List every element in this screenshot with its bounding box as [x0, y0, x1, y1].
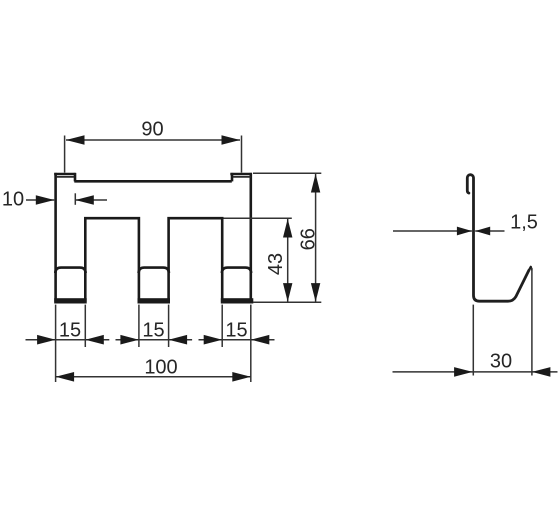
dimension 10: [2, 189, 107, 211]
right tab top: [230, 173, 252, 176]
svg-text:10: 10: [2, 189, 24, 211]
left tab top: [54, 173, 75, 176]
right tab left side: [231, 173, 234, 182]
svg-text:15: 15: [225, 319, 247, 341]
front view body outline: [54, 173, 252, 302]
svg-text:100: 100: [144, 357, 177, 379]
body left edge: [54, 173, 57, 302]
prong 1 fold line: [55, 268, 85, 273]
svg-text:43: 43: [265, 253, 287, 275]
prong 3 fold line: [222, 268, 251, 273]
right tab fold line: [233, 176, 251, 178]
opening 1: [85, 218, 139, 302]
body right edge: [250, 173, 253, 302]
svg-text:1,5: 1,5: [510, 211, 538, 233]
dimension 15 prong1: [26, 305, 110, 382]
svg-text:15: 15: [142, 319, 164, 341]
dimension 15 prong2: [116, 305, 193, 347]
top curl: [467, 175, 529, 302]
prong 3 bottom roll: [221, 298, 254, 303]
dimension 15 prong3: [199, 305, 275, 382]
svg-text:66: 66: [298, 228, 320, 250]
dimension 30: [393, 268, 558, 377]
dimension 66: [253, 173, 321, 302]
left tab right side: [74, 173, 77, 182]
dimension 1,5: [393, 211, 538, 235]
prong 2 bottom roll: [138, 298, 171, 303]
lip tip cut: [529, 267, 531, 270]
prong 1 bottom roll: [54, 298, 86, 303]
dimension 43: [224, 218, 293, 302]
side view hook profile: [467, 175, 532, 302]
dimension 90: [65, 119, 242, 173]
dimension 100: [56, 357, 251, 382]
svg-text:30: 30: [490, 351, 512, 373]
opening 2: [169, 218, 223, 302]
svg-text:15: 15: [59, 319, 81, 341]
left tab fold line: [56, 176, 74, 178]
top bar edge: [74, 180, 232, 183]
prong 2 fold line: [139, 268, 169, 273]
svg-text:90: 90: [141, 119, 163, 141]
